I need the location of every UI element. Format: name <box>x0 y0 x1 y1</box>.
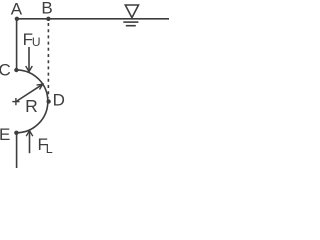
svg-text:D: D <box>53 91 65 110</box>
svg-text:C: C <box>0 60 11 79</box>
svg-text:L: L <box>46 142 53 156</box>
svg-text:A: A <box>11 0 23 18</box>
svg-text:B: B <box>41 0 52 17</box>
svg-text:U: U <box>32 35 41 49</box>
svg-text:E: E <box>0 125 10 144</box>
svg-text:R: R <box>25 96 38 116</box>
